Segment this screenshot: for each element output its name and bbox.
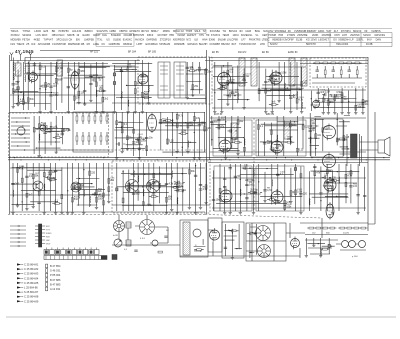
ground: [319, 254, 322, 257]
capacitor: [177, 189, 178, 192]
capacitor: [250, 232, 251, 235]
band switch dashed box: [9, 113, 109, 157]
svg-text:MD5VB9 FE73A 4KBZ TVPV4T 3FCU1: MD5VB9 FE73A 4KBZ TVPV4T 3FCU1U0 CH EKI …: [11, 38, 382, 42]
mid double bus: [14, 157, 15, 158]
power box: [246, 223, 286, 261]
capacitor: [94, 78, 95, 81]
svg-text:680: 680: [58, 80, 63, 82]
resistor: [205, 70, 207, 75]
coil: [187, 141, 190, 148]
ground: [115, 156, 118, 159]
band switch contacts: [25, 117, 26, 118]
coil: [13, 62, 16, 71]
mains transformer box: [180, 220, 208, 257]
resistor: [271, 79, 273, 84]
arrow to module: [62, 129, 70, 132]
ground: [340, 111, 343, 114]
svg-text:100k: 100k: [141, 141, 147, 143]
stage wires: [337, 171, 338, 172]
coil: [17, 95, 20, 102]
ground: [16, 204, 19, 207]
resistor: [314, 171, 316, 176]
ground: [204, 201, 207, 204]
coil: [284, 83, 287, 90]
coil: [89, 196, 92, 203]
ground: [289, 110, 292, 113]
coil: [176, 197, 179, 204]
coil: [24, 64, 27, 73]
capacitor: [145, 137, 148, 138]
rotary switch: [114, 221, 125, 232]
tube V8: [219, 138, 231, 154]
svg-text:R108: R108: [19, 166, 25, 168]
resistor: [43, 172, 45, 176]
coil: [78, 192, 81, 199]
ground: [77, 101, 80, 104]
ground: [121, 150, 124, 153]
resistor: [350, 171, 352, 176]
resistor: [128, 183, 130, 187]
tube V17: [291, 237, 300, 250]
stage wires: [200, 250, 201, 251]
resistor: [227, 80, 229, 85]
resistor: [340, 138, 345, 140]
rotary switch: [140, 220, 155, 235]
coil can: [231, 123, 237, 139]
capacitor: [164, 236, 167, 237]
resistor: [160, 119, 162, 123]
resistor: [340, 70, 342, 75]
resistor: [219, 189, 221, 194]
capacitor: [220, 77, 223, 78]
tube V7: [148, 113, 157, 134]
ground: [354, 111, 357, 114]
svg-text:R108: R108: [287, 137, 293, 139]
resistor: [192, 85, 194, 90]
ground: [191, 93, 194, 96]
antenna symbols: [10, 52, 32, 60]
resistor: [176, 123, 178, 127]
ground: [43, 211, 46, 214]
resistor: [126, 136, 128, 140]
capacitor: [89, 75, 92, 76]
ground: [198, 156, 201, 159]
coil: [24, 75, 27, 82]
svg-text:EF 89: EF 89: [262, 51, 269, 54]
resistor: [231, 138, 233, 143]
capacitor: [223, 186, 226, 187]
coil: [83, 190, 86, 197]
pot P2: [114, 239, 122, 247]
ground: [277, 99, 280, 102]
capacitor: [67, 87, 70, 88]
tube V9: [271, 139, 283, 155]
svg-text:L8K: L8K: [46, 240, 50, 242]
resistor: [361, 227, 366, 229]
resistor: [55, 78, 57, 82]
capacitor: [48, 176, 49, 179]
coil: [243, 139, 246, 146]
resistor: [103, 201, 105, 205]
ground: [299, 211, 302, 214]
svg-text:0,25: 0,25: [127, 66, 132, 68]
stage wires: [84, 102, 85, 103]
svg-text:p 104: p 104: [352, 256, 358, 258]
resistor: [76, 116, 78, 121]
ground: [226, 103, 229, 106]
capacitor: [217, 120, 220, 121]
resistor: [88, 136, 90, 141]
coil: [271, 179, 274, 186]
coil: [13, 73, 16, 80]
resistor: [73, 96, 75, 100]
power tube box: [208, 218, 222, 252]
resistor: [330, 227, 335, 229]
resistor: [26, 193, 28, 197]
coil: [171, 119, 174, 126]
capacitor: [12, 84, 15, 85]
coil: [127, 100, 130, 107]
resistor: [243, 147, 245, 151]
capacitor: [152, 182, 155, 183]
resistor: [89, 171, 91, 175]
resistor: [343, 136, 345, 141]
ground: [16, 80, 19, 83]
resistor: [67, 68, 69, 72]
resistor: [296, 148, 298, 152]
stage wires: [347, 148, 348, 149]
IF stage frame 1: [213, 120, 252, 156]
capacitor: [132, 142, 135, 143]
ground: [347, 111, 350, 114]
resistor: [295, 190, 297, 195]
resistor: [258, 125, 260, 130]
coil can: [251, 58, 257, 86]
resistor: [99, 90, 104, 92]
svg-text:0,25: 0,25: [299, 150, 304, 152]
resistor: [323, 248, 328, 250]
ground: [165, 211, 168, 214]
coil: [270, 141, 273, 148]
stage wires: [243, 137, 244, 138]
stage wires: [293, 84, 294, 85]
ground: [141, 110, 144, 113]
svg-text:0,5M: 0,5M: [53, 95, 58, 97]
transistor T3: [126, 180, 139, 193]
resistor: [324, 70, 326, 75]
resistor: [38, 124, 40, 128]
svg-text:FZ2 T0EVZ Z5 D4I APUGDKB F1OM5: FZ2 T0EVZ Z5 D4I APUGDKB F1OM5H 08 M9Z5G…: [11, 42, 266, 46]
bottom rule: [6, 316, 396, 318]
electrolytic capacitor: [116, 188, 118, 191]
stage wires: [185, 122, 186, 123]
resistor: [100, 116, 102, 121]
svg-text:C 25 864-88: C 25 864-88: [24, 295, 39, 299]
capacitor: [186, 67, 189, 68]
svg-text:la 28: la 28: [113, 235, 119, 237]
ground: [16, 103, 19, 106]
IF stage frame 2: [256, 120, 306, 156]
ground: [223, 211, 226, 214]
coil: [137, 175, 140, 182]
svg-text:C 25 864-83: C 25 864-83: [24, 272, 39, 276]
dashed wires: [8, 118, 322, 218]
resistor: [12, 89, 14, 93]
resistor: [221, 86, 223, 90]
resistor: [340, 227, 345, 229]
resistor: [258, 89, 260, 94]
stage wires: [126, 85, 127, 86]
svg-text:L 25 864-86: L 25 864-86: [24, 286, 38, 290]
stage wires: [133, 148, 134, 149]
svg-text:0,5M: 0,5M: [297, 191, 302, 193]
capacitor: [210, 122, 213, 123]
coil can: [351, 134, 358, 158]
stage wires: [55, 141, 56, 142]
resistor: [122, 198, 124, 203]
resistor: [96, 190, 98, 195]
AF stage frame 2: [256, 166, 304, 211]
capacitor: [27, 73, 30, 74]
capacitor: [83, 90, 86, 91]
resistor: [166, 197, 168, 202]
resistor: [100, 136, 102, 141]
coil: [28, 64, 31, 73]
ground: [312, 244, 315, 247]
coil: [95, 90, 98, 97]
ground: [101, 110, 104, 113]
capacitor: [194, 175, 197, 176]
resistor: [144, 97, 149, 99]
coil: [28, 75, 31, 82]
resistor: [179, 189, 184, 191]
resistor: [362, 103, 364, 108]
capacitor: [198, 125, 201, 126]
ground: [333, 111, 336, 114]
audio dashed box: [112, 161, 210, 213]
ground: [252, 211, 255, 214]
tube V1: [29, 71, 38, 84]
svg-text:C101: C101: [348, 173, 354, 175]
capacitor: [138, 148, 141, 149]
resistor: [326, 169, 328, 174]
resistor: [289, 123, 291, 127]
coil: [133, 170, 136, 177]
resistor: [50, 170, 52, 175]
capacitor: [242, 80, 245, 81]
svg-text:C101: C101: [299, 97, 305, 99]
resistor: [187, 123, 189, 128]
stage wires: [269, 141, 270, 142]
svg-text:460 kHz: 460 kHz: [238, 52, 247, 54]
resistor: [248, 179, 253, 181]
capacitor: [49, 95, 52, 96]
resistor: [271, 74, 273, 78]
resistor: [146, 146, 148, 151]
output stage frame: [311, 119, 343, 157]
ground: [67, 110, 70, 113]
capacitor: [299, 194, 302, 195]
capacitor: [33, 64, 36, 65]
stage wires: [20, 92, 21, 93]
resistor: [96, 197, 98, 202]
ground: [327, 111, 330, 114]
ground: [331, 211, 334, 214]
tube V11: [323, 153, 336, 170]
resistor: [17, 167, 19, 172]
resistor: [159, 183, 161, 187]
svg-text:0,25: 0,25: [43, 126, 48, 128]
resistor: [339, 62, 344, 64]
ground: [126, 147, 129, 150]
svg-text:0,25: 0,25: [206, 128, 211, 130]
resistor: [103, 193, 105, 197]
tube V6: [313, 99, 320, 110]
svg-text:P 85 004: P 85 004: [50, 273, 61, 277]
svg-text:3n3: 3n3: [223, 87, 228, 89]
coil: [289, 137, 292, 144]
ground: [199, 206, 202, 209]
small pot: [152, 240, 158, 246]
resistor: [362, 100, 364, 105]
coil can: [239, 58, 245, 86]
ground: [188, 206, 191, 209]
capacitor: [331, 179, 334, 180]
resistor: [22, 100, 24, 105]
ground: [213, 110, 216, 113]
capacitor: [43, 132, 46, 133]
resistor: [167, 139, 169, 144]
ground: [289, 200, 292, 203]
svg-text:25n: 25n: [194, 86, 199, 88]
capacitor: [231, 82, 234, 83]
ground: [55, 151, 58, 154]
capacitor: [95, 192, 96, 195]
capacitor: [224, 247, 227, 248]
resistor: [141, 92, 143, 97]
ground: [276, 200, 279, 203]
ground: [305, 254, 308, 257]
svg-text:C 25 864-81: C 25 864-81: [24, 263, 39, 267]
capacitor: [316, 70, 319, 71]
resistor: [287, 141, 292, 143]
capacitor: [132, 193, 135, 194]
ground: [12, 105, 15, 108]
IF transformer box 1: [158, 62, 170, 98]
svg-text:C101: C101: [138, 134, 144, 136]
resistor: [166, 119, 171, 121]
resistor: [142, 202, 144, 206]
resistor: [332, 186, 334, 191]
stage wires: [223, 65, 224, 66]
AF stage frame 1: [214, 166, 252, 211]
svg-text:10n: 10n: [76, 97, 81, 99]
resistor: [106, 116, 108, 121]
svg-text:C101: C101: [280, 172, 286, 174]
stage wires: [244, 193, 245, 194]
ground: [186, 96, 189, 99]
coil: [308, 198, 311, 205]
resistor: [276, 144, 278, 149]
resistor: [176, 114, 178, 119]
resistor: [325, 185, 330, 187]
ground: [270, 148, 273, 151]
resistor: [345, 174, 347, 178]
resistor: [88, 116, 90, 121]
svg-text:C 25 864-89: C 25 864-89: [24, 299, 39, 303]
electrolytic capacitor: [113, 73, 115, 76]
ground: [317, 99, 320, 102]
svg-text:10n: 10n: [136, 142, 141, 144]
resistor: [323, 227, 328, 229]
resistor: [94, 136, 96, 141]
resistor: [341, 93, 343, 98]
svg-text:B 07 886: B 07 886: [50, 278, 61, 282]
svg-text:C101: C101: [246, 73, 252, 75]
resistor: [78, 184, 80, 189]
capacitor: [11, 183, 14, 184]
resistor: [108, 178, 110, 183]
capacitor: [234, 176, 237, 177]
tube V14: [324, 177, 336, 193]
capacitor: [120, 71, 123, 72]
capacitor: [37, 202, 40, 203]
svg-text:A 12 031: A 12 031: [50, 287, 61, 291]
IF shield dashed box: [138, 57, 212, 104]
tube V15: [210, 228, 220, 242]
resistor: [309, 227, 314, 229]
capacitor: [49, 86, 52, 87]
svg-text:1M: 1M: [36, 129, 39, 131]
coil can: [57, 60, 63, 76]
parts table top rule: [10, 28, 392, 30]
capacitor: [245, 185, 248, 186]
ground: [54, 211, 57, 214]
capacitor: [264, 81, 267, 82]
resistor: [121, 123, 123, 127]
ground: [271, 110, 274, 113]
svg-text:4 5 6: 4 5 6: [140, 238, 146, 240]
electrolytic capacitor: [113, 82, 115, 85]
resistor: [347, 227, 352, 229]
svg-text:EABC 80: EABC 80: [288, 51, 298, 54]
ground: [170, 208, 173, 211]
resistor: [151, 196, 156, 198]
resistor: [181, 133, 186, 135]
tube V3: [138, 72, 148, 86]
ground: [322, 111, 325, 114]
resistor: [284, 205, 286, 209]
svg-text:0,5M: 0,5M: [325, 92, 330, 94]
svg-text:680: 680: [292, 124, 297, 126]
stage wires: [144, 174, 145, 175]
resistor: [227, 70, 229, 75]
svg-text:C101: C101: [179, 183, 185, 185]
resistor: [300, 174, 302, 178]
resistor: [205, 185, 207, 189]
ground: [229, 211, 232, 214]
ground: [356, 211, 359, 214]
coil can: [289, 58, 295, 86]
svg-text:C 25 864-84: C 25 864-84: [24, 276, 39, 280]
svg-text:0,5M: 0,5M: [181, 131, 186, 133]
ground: [361, 111, 364, 114]
resistor: [237, 120, 239, 125]
coil can: [16, 63, 22, 76]
legend list: [17, 263, 61, 304]
coil: [276, 135, 279, 142]
svg-text:ECH 81: ECH 81: [214, 113, 223, 116]
